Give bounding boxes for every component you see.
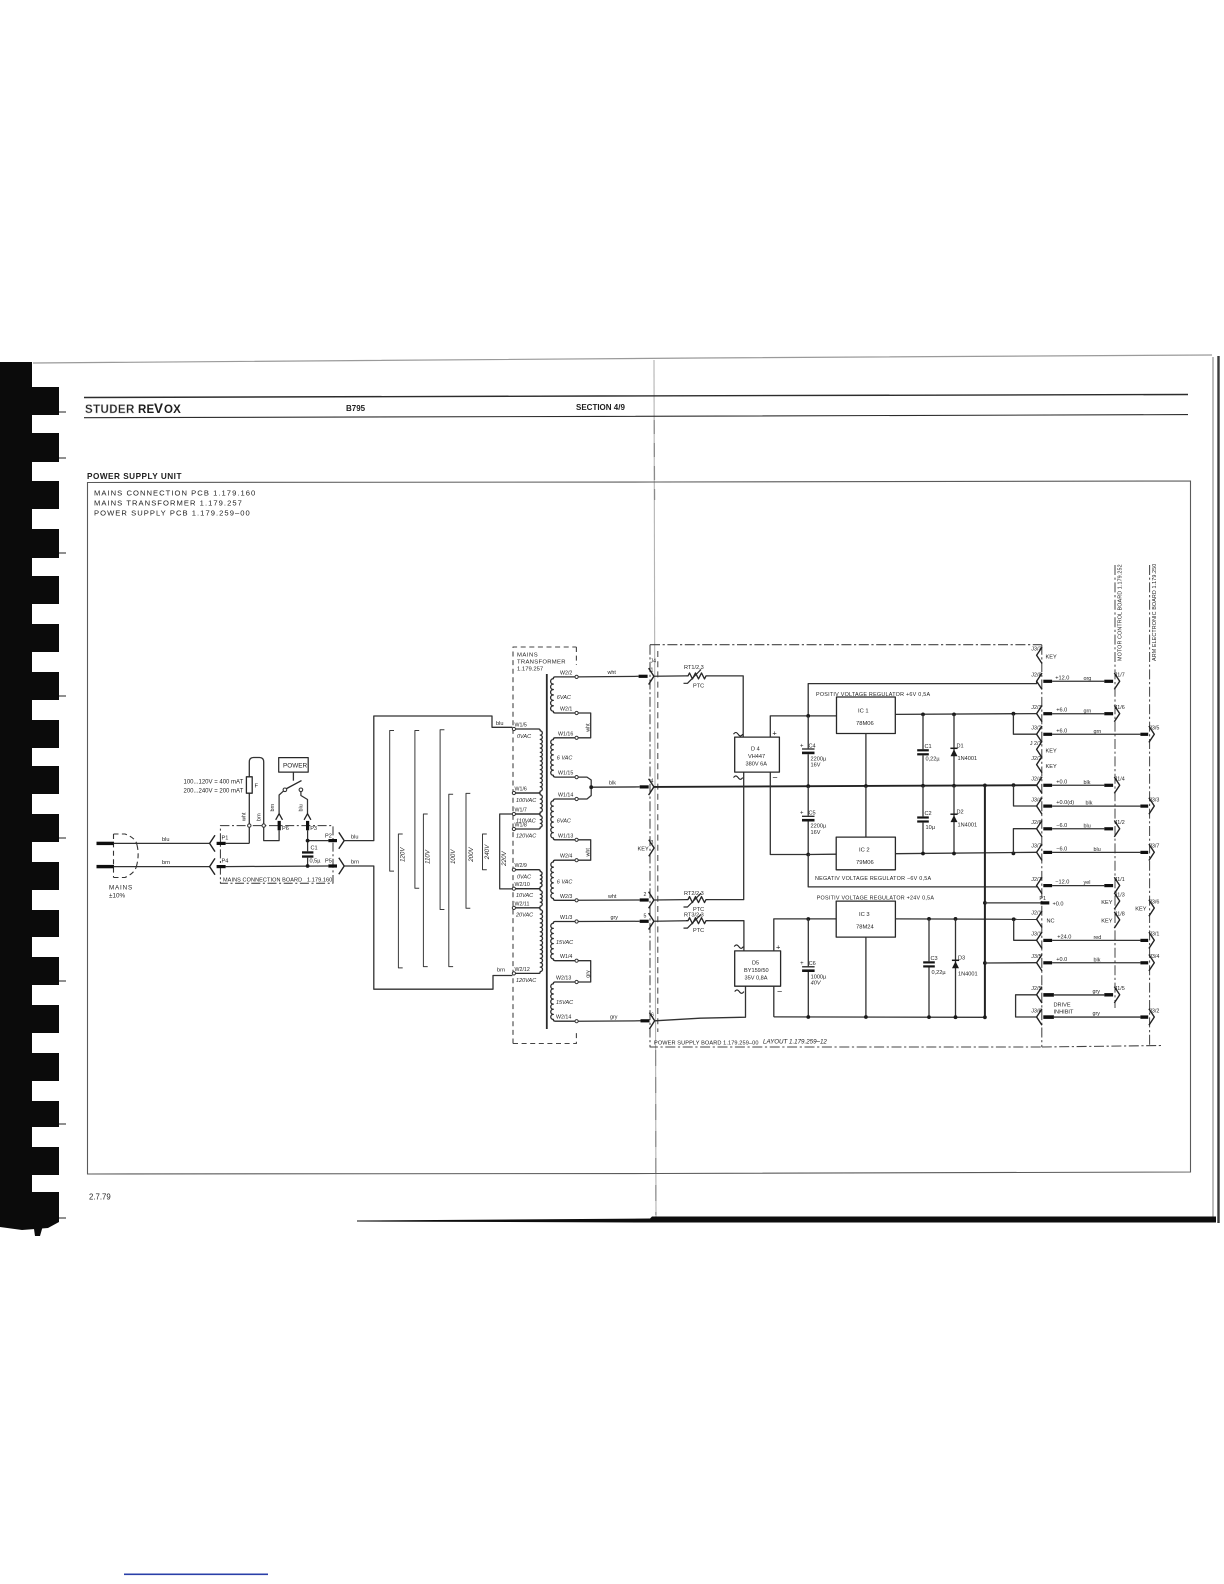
mains plug	[97, 834, 139, 900]
svg-text:KEY: KEY	[1135, 906, 1146, 912]
svg-text:J 2/1: J 2/1	[1030, 741, 1042, 747]
svg-text:+0.0: +0.0	[1056, 957, 1067, 963]
svg-text:gry: gry	[611, 915, 619, 921]
svg-text:brn: brn	[257, 813, 263, 821]
svg-text:200V: 200V	[468, 846, 475, 862]
svg-text:W1/6: W1/6	[515, 787, 527, 793]
svg-text:220V: 220V	[501, 850, 508, 866]
svg-text:grn: grn	[1084, 708, 1092, 714]
svg-text:120VAC: 120VAC	[516, 833, 536, 839]
svg-text:MOTOR CONTROL BOARD 1.179.252: MOTOR CONTROL BOARD 1.179.252	[1118, 564, 1124, 661]
connector J3/6 gry to arm J3/2	[1031, 1008, 1159, 1025]
svg-text:MAINS CONNECTION BOARD: MAINS CONNECTION BOARD	[223, 878, 302, 884]
svg-text:red: red	[1094, 935, 1102, 941]
-6V input rail to IC2	[808, 853, 836, 855]
svg-text:P2: P2	[325, 833, 332, 839]
svg-text:J3/6: J3/6	[1149, 899, 1159, 905]
svg-text:IC 2: IC 2	[859, 848, 870, 854]
link W1/4 to W2/13 gry	[578, 961, 591, 982]
svg-text:+0.0(d): +0.0(d)	[1056, 800, 1074, 806]
svg-text:J2/6: J2/6	[1031, 820, 1041, 826]
bridge rectifier D4 VH447	[734, 729, 780, 783]
svg-text:PTC: PTC	[693, 928, 704, 934]
svg-text:NC: NC	[1047, 919, 1055, 925]
primary winding W2/9-W2/10	[515, 870, 542, 889]
svg-text:J1/5: J1/5	[1115, 986, 1125, 992]
svg-text:P6: P6	[282, 826, 289, 832]
svg-text:1N4001: 1N4001	[958, 756, 978, 762]
node D4+/C4	[806, 714, 810, 718]
svg-text:0,22µ: 0,22µ	[932, 970, 947, 976]
svg-text:W2/2: W2/2	[560, 670, 572, 676]
connector J1/3 KEY	[1101, 892, 1125, 909]
svg-text:KEY: KEY	[638, 846, 649, 852]
svg-text:wht: wht	[607, 670, 617, 676]
svg-text:MAINS: MAINS	[109, 885, 133, 892]
svg-text:2200µ: 2200µ	[811, 756, 827, 762]
svg-text:15VAC: 15VAC	[556, 1000, 573, 1006]
arm electronic board boundary 1.179.250	[1150, 564, 1158, 1045]
svg-text:J3/7: J3/7	[1149, 844, 1159, 850]
selector labels	[400, 844, 509, 867]
svg-text:POWER SUPPLY PCB 1.179.259–00: POWER SUPPLY PCB 1.179.259–00	[94, 509, 251, 518]
pin P1 +0.0	[1039, 896, 1063, 908]
svg-text:120V: 120V	[400, 847, 407, 862]
svg-text:wht: wht	[242, 812, 248, 822]
thermistor RT1/2,3 PTC	[684, 665, 709, 690]
svg-text:0,5µ: 0,5µ	[310, 858, 322, 864]
svg-text:J3/1: J3/1	[1149, 932, 1159, 938]
svg-text:POSITIV VOLTAGE REGULATOR +6V: POSITIV VOLTAGE REGULATOR +6V 0,5A	[816, 692, 930, 698]
capacitor C6 1000u 40V	[800, 917, 827, 1019]
svg-text:C4: C4	[809, 743, 816, 749]
connector J2/5 gry to J1/5 drive inhibit	[1031, 986, 1125, 1016]
branch to J2/6 -6V	[1012, 829, 1037, 856]
svg-text:−: −	[772, 773, 777, 783]
svg-text:10VAC: 10VAC	[516, 893, 533, 899]
connector pin 1 wht	[639, 668, 686, 685]
primary terminal labels	[515, 723, 530, 973]
secondary terminal nodes	[575, 675, 578, 1023]
centre fold line	[654, 360, 656, 1220]
connector J3/3 KEY	[1031, 647, 1057, 664]
svg-text:W2/14: W2/14	[556, 1015, 571, 1021]
primary terminal nodes	[512, 727, 515, 975]
FOOTER	[89, 1193, 111, 1202]
mains connection board outline 1.179.160	[220, 826, 333, 884]
svg-text:MAINS CONNECTION PCB 1.179.160: MAINS CONNECTION PCB 1.179.160	[94, 489, 256, 498]
svg-text:KEY: KEY	[1046, 749, 1057, 755]
wire RT2 to D4 AC2	[709, 772, 744, 899]
voltage selector strap guides	[390, 730, 487, 968]
svg-text:200...240V = 200 mAT: 200...240V = 200 mAT	[184, 789, 244, 795]
connector pin 6 gry	[641, 1013, 655, 1029]
capacitor C5 2200u 16V	[800, 786, 827, 854]
wire IC1 gnd	[865, 734, 867, 787]
wire P3 node to P2	[308, 840, 329, 842]
-6V output rail IC2 to J3/7	[895, 852, 1036, 853]
svg-text:J4: J4	[651, 659, 657, 665]
svg-text:4: 4	[651, 778, 654, 784]
connector J2/1 KEY	[1030, 741, 1057, 758]
svg-text:110VAC: 110VAC	[516, 818, 536, 824]
svg-text:79M06: 79M06	[856, 860, 874, 866]
wire blk center tap W1/15+W1/14 to pin4	[578, 777, 640, 799]
primary winding W2/10-W2/11	[515, 889, 542, 908]
svg-text:0VAC: 0VAC	[517, 734, 531, 740]
link J2/5 to J3/6 drive inhibit	[1016, 995, 1037, 1017]
svg-text:5: 5	[644, 913, 647, 919]
svg-text:J3/3: J3/3	[1031, 647, 1041, 653]
svg-text:STUDER: STUDER	[85, 404, 135, 416]
+24V output rail IC3 to J2/1	[895, 918, 1036, 920]
0V24 rail	[774, 1016, 985, 1018]
node C1/P4P5	[306, 864, 310, 868]
svg-text:78M06: 78M06	[856, 721, 874, 727]
svg-text:D5: D5	[752, 961, 759, 967]
svg-text:brn: brn	[497, 968, 505, 974]
spiral binding black spine	[0, 362, 32, 1222]
svg-text:POSITIV VOLTAGE REGULATOR +24V: POSITIV VOLTAGE REGULATOR +24V 0,5A	[817, 896, 935, 902]
transformer core	[546, 674, 548, 1029]
connector J2/3 +6.0 grn to J1/6	[1031, 705, 1125, 722]
svg-text:6 VAC: 6 VAC	[557, 756, 573, 762]
svg-text:RE: RE	[138, 404, 155, 416]
wire blu P2 to selector to W1/5	[344, 716, 512, 841]
svg-text:100...120V = 400 mAT: 100...120V = 400 mAT	[184, 780, 244, 786]
svg-text:J1/7: J1/7	[1115, 673, 1125, 679]
connector J3/2 +6.0 grn to arm J3/5	[1031, 726, 1159, 743]
svg-text:C3: C3	[931, 956, 938, 962]
wire gry W2/14 to pin6	[578, 1015, 640, 1022]
svg-text:V: V	[154, 401, 163, 416]
svg-text:J1/2: J1/2	[1115, 820, 1125, 826]
connector arm J3/6 KEY	[1135, 899, 1159, 916]
secondary terminal labels	[556, 670, 573, 1020]
capacitor C1 0,22u	[917, 713, 940, 788]
wire brn P5 to selector to W2/12	[344, 860, 512, 990]
svg-text:J1/6: J1/6	[1115, 705, 1125, 711]
svg-text:KEY: KEY	[1046, 764, 1057, 770]
wire P4 to P5	[226, 865, 329, 868]
svg-text:C1: C1	[925, 744, 932, 750]
svg-text:IC 3: IC 3	[859, 912, 870, 918]
small tick marks right of teeth	[59, 412, 66, 1218]
svg-text:J2/2: J2/2	[1031, 756, 1041, 762]
svg-text:1N4001: 1N4001	[958, 972, 978, 978]
svg-text:+24.0: +24.0	[1057, 934, 1071, 940]
transformer T1 dashed enclosure 1.179.257	[513, 647, 576, 1044]
svg-text:blk: blk	[1084, 780, 1091, 786]
svg-text:100VAC: 100VAC	[516, 798, 536, 804]
svg-text:POWER: POWER	[283, 763, 308, 770]
svg-text:10µ: 10µ	[926, 825, 936, 831]
svg-text:J2/8: J2/8	[1031, 673, 1041, 679]
wire IC3 gnd	[865, 937, 867, 1017]
capacitor C2 10u	[917, 786, 936, 856]
svg-text:16V: 16V	[811, 830, 821, 836]
0V rail blk pin4 to J2/4	[654, 785, 1037, 787]
svg-text:blu: blu	[162, 837, 169, 843]
regulator IC1 78M06	[837, 697, 896, 734]
svg-text:W1/3: W1/3	[560, 915, 572, 921]
svg-text:−: −	[777, 987, 782, 997]
svg-text:F: F	[255, 784, 259, 790]
svg-text:J3/4: J3/4	[1149, 954, 1159, 960]
svg-text:J2/3: J2/3	[1031, 705, 1041, 711]
svg-text:W1/15: W1/15	[558, 771, 573, 777]
primary winding W1/6-W1/7 110VAC	[515, 793, 542, 814]
svg-text:J3/2: J3/2	[1031, 726, 1041, 732]
+6V output rail IC1 to J2/3	[895, 713, 1036, 716]
connector P1	[210, 835, 250, 851]
svg-text:PTC: PTC	[693, 683, 704, 689]
svg-text:+: +	[776, 942, 781, 951]
svg-text:100V: 100V	[450, 849, 457, 864]
svg-text:6: 6	[651, 1013, 654, 1019]
svg-text:gry: gry	[1093, 989, 1101, 995]
svg-text:0,22µ: 0,22µ	[926, 756, 941, 762]
node P3/C1	[306, 839, 310, 843]
connector pin 5 gry	[640, 913, 686, 929]
svg-text:blu: blu	[496, 721, 503, 727]
svg-text:1.179.257: 1.179.257	[517, 667, 543, 673]
svg-text:wht: wht	[586, 723, 592, 733]
secondary winding W2/4-W2/3 6VAC	[551, 860, 575, 900]
wire wht W2/2 to pin1	[578, 670, 638, 677]
wire pin6 to D5 AC2	[655, 986, 746, 1021]
connector P2	[325, 832, 344, 848]
svg-text:W1/14: W1/14	[558, 793, 573, 799]
svg-text:brn: brn	[351, 860, 359, 866]
svg-text:15VAC: 15VAC	[556, 940, 573, 946]
svg-text:blk: blk	[1094, 957, 1101, 963]
bottom blue line	[124, 1574, 268, 1576]
diode D2 1N4001	[950, 786, 977, 856]
svg-text:2: 2	[644, 892, 647, 898]
svg-text:C1: C1	[311, 846, 318, 852]
svg-text:NEGATIV VOLTAGE REGULATOR −6V: NEGATIV VOLTAGE REGULATOR −6V 0,5A	[815, 876, 931, 882]
svg-text:blk: blk	[609, 781, 616, 787]
regulator IC3 78M24	[836, 901, 895, 937]
svg-text:W1/16: W1/16	[558, 731, 573, 737]
primary winding W1/5-W1/6 0VAC-100VAC	[515, 729, 542, 793]
svg-text:1.179.160: 1.179.160	[307, 878, 332, 884]
branch J3/1 +24.0 from +24 rail	[1012, 917, 1037, 940]
svg-text:−12.0: −12.0	[1055, 880, 1069, 886]
svg-text:J2/1: J2/1	[1031, 911, 1041, 917]
diode D3 1N4001	[952, 917, 978, 1019]
svg-text:org: org	[1084, 676, 1092, 682]
svg-text:P5: P5	[325, 859, 332, 865]
right page edge lines	[1212, 357, 1214, 1222]
svg-text:INHIBIT: INHIBIT	[1054, 1010, 1074, 1016]
svg-text:+: +	[800, 961, 804, 967]
svg-text:P1: P1	[222, 836, 229, 842]
svg-text:gry: gry	[1093, 1011, 1101, 1017]
svg-text:20VAC: 20VAC	[515, 912, 533, 918]
link W1/13 to W2/4 wht	[578, 840, 591, 860]
POWER switch box	[279, 758, 309, 781]
svg-text:J3/2: J3/2	[1149, 1008, 1159, 1014]
heavy 0V link blk rail to 0V24 rail	[983, 784, 987, 1020]
motor control board boundary 1.179.252	[1115, 564, 1124, 1008]
node wht on board edge	[248, 824, 251, 827]
svg-text:grn: grn	[1094, 729, 1102, 735]
svg-text:P1: P1	[1039, 896, 1046, 902]
svg-text:240V: 240V	[484, 844, 491, 860]
svg-text:J3/6: J3/6	[1031, 1008, 1041, 1014]
switch S1 contacts	[270, 781, 308, 814]
svg-text:C5: C5	[809, 810, 816, 816]
svg-text:gry: gry	[586, 970, 592, 978]
svg-text:110V: 110V	[425, 849, 432, 864]
svg-text:KEY: KEY	[1101, 919, 1112, 925]
secondary winding W1/3-W1/4 15VAC	[551, 922, 575, 961]
svg-text:J3/5: J3/5	[1149, 726, 1159, 732]
connector J2/8 +12.0 org to J1/7	[1031, 673, 1125, 690]
svg-text:D3: D3	[958, 956, 965, 962]
link W2/1 to W1/16 wht	[578, 713, 591, 738]
svg-text:W1/4: W1/4	[560, 954, 572, 960]
svg-text:J1/8: J1/8	[1115, 911, 1125, 917]
svg-text:C6: C6	[809, 961, 816, 967]
svg-text:P3: P3	[310, 826, 317, 832]
svg-text:W2/1: W2/1	[560, 707, 572, 713]
+6V input rail C4 node to IC1	[808, 715, 836, 717]
+12V unregulated rail to J2/8	[808, 681, 1036, 716]
connector J3/4 +0.0(d) blk to arm J3/3	[1031, 797, 1159, 814]
svg-text:W2/11: W2/11	[515, 901, 530, 907]
secondary winding W1/16-W1/15 6VAC	[551, 738, 575, 777]
svg-text:MAINS: MAINS	[517, 653, 538, 659]
svg-text:+6.0: +6.0	[1056, 708, 1067, 714]
svg-text:J1/4: J1/4	[1115, 777, 1125, 783]
svg-text:J3/3: J3/3	[1149, 797, 1159, 803]
svg-text:−6.0: −6.0	[1056, 846, 1067, 852]
svg-text:B795: B795	[346, 404, 366, 413]
wire D5 plus to +24 rail	[774, 919, 836, 951]
svg-text:gry: gry	[610, 1015, 618, 1021]
svg-text:D2: D2	[957, 809, 964, 815]
svg-text:OX: OX	[164, 404, 181, 416]
svg-text:brn: brn	[270, 804, 276, 812]
secondary winding W1/14-W1/13 6VAC	[551, 799, 575, 840]
svg-text:D1: D1	[957, 744, 964, 750]
svg-text:3: 3	[651, 840, 654, 846]
wire D4 minus to C5 node	[770, 772, 808, 854]
wire D5 minus to 0V24 rail	[773, 986, 775, 1017]
connector P3	[304, 814, 317, 841]
svg-text:1: 1	[651, 668, 654, 674]
svg-text:J2/7: J2/7	[1031, 877, 1041, 883]
connector J3/7 -6.0 blu to arm J3/7	[1031, 844, 1159, 861]
node C5/D4minus	[806, 853, 810, 857]
svg-text:C2: C2	[925, 811, 932, 817]
page top edge	[33, 355, 1212, 363]
node IC3 gnd/0V24	[864, 1015, 868, 1019]
svg-text:40V: 40V	[811, 981, 822, 987]
svg-text:POWER SUPPLY BOARD 1.179.259–: POWER SUPPLY BOARD 1.179.259–00	[654, 1041, 759, 1047]
svg-text:DRIVE: DRIVE	[1054, 1003, 1071, 1009]
svg-text:J3/5: J3/5	[1031, 954, 1041, 960]
svg-text:16V: 16V	[811, 763, 821, 769]
svg-text:6 VAC: 6 VAC	[557, 880, 573, 886]
branch P1 +0.0	[983, 901, 1041, 905]
SCAN-FURNITURE	[0, 355, 1219, 1575]
connector J2/7 -12.0 yel to J1/1	[1031, 877, 1125, 894]
svg-text:−6.0: −6.0	[1056, 823, 1067, 829]
svg-text:blk: blk	[1086, 801, 1093, 807]
capacitor C3 0,22u	[923, 917, 946, 1019]
svg-text:+: +	[772, 729, 777, 738]
svg-text:2200µ: 2200µ	[811, 824, 827, 830]
svg-text:+: +	[800, 743, 804, 749]
capacitor C1 0,5u	[302, 843, 321, 867]
wire IC2 gnd	[865, 786, 867, 837]
wire brn plug to P4	[114, 860, 210, 867]
svg-text:blu: blu	[1084, 823, 1091, 829]
connector P6	[276, 814, 289, 832]
svg-text:brn: brn	[162, 860, 170, 866]
svg-text:POWER SUPPLY UNIT: POWER SUPPLY UNIT	[87, 472, 182, 481]
wire RT1 to D4 AC1	[709, 676, 744, 737]
svg-text:MAINS TRANSFORMER 1.179.257: MAINS TRANSFORMER 1.179.257	[94, 499, 243, 508]
strap 220V W1/7 to W2/10	[500, 814, 513, 889]
svg-text:J3/1: J3/1	[1031, 932, 1041, 938]
svg-text:+: +	[800, 810, 804, 816]
svg-text:J1/3: J1/3	[1115, 892, 1125, 898]
svg-text:LAYOUT 1.179.259–12: LAYOUT 1.179.259–12	[763, 1039, 827, 1046]
svg-text:+6.0: +6.0	[1056, 728, 1067, 734]
svg-text:TRANSFORMER: TRANSFORMER	[517, 660, 566, 666]
bridge rectifier D5 BY159/50	[734, 942, 782, 996]
svg-text:+0.0: +0.0	[1056, 779, 1067, 785]
svg-text:J2/4: J2/4	[1031, 777, 1041, 783]
secondary winding W2/2-W2/1 6VAC	[551, 677, 576, 713]
svg-text:VH447: VH447	[748, 754, 765, 760]
-12V rail to J2/7	[808, 855, 1036, 887]
svg-text:blu: blu	[1094, 847, 1101, 853]
svg-text:W2/12: W2/12	[515, 967, 530, 973]
connector J3/1 +24.0 red to arm J3/1	[1031, 932, 1159, 949]
branch J3/5 +0.0	[983, 961, 1037, 965]
svg-text:78M24: 78M24	[856, 925, 875, 931]
svg-text:D 4: D 4	[751, 747, 760, 753]
svg-text:W1/5: W1/5	[515, 723, 527, 729]
node C4/0V rail	[806, 784, 810, 788]
svg-text:W2/9: W2/9	[515, 863, 527, 869]
primary winding W2/11-W2/12	[515, 908, 542, 974]
svg-text:6VAC: 6VAC	[557, 819, 571, 825]
HEADER	[84, 395, 1188, 418]
capacitor C4 2200u 16V	[800, 716, 827, 786]
svg-text:J3/7: J3/7	[1031, 844, 1041, 850]
svg-text:IC 1: IC 1	[858, 709, 869, 715]
svg-text:blu: blu	[298, 804, 304, 811]
svg-text:W2/4: W2/4	[560, 854, 572, 860]
svg-text:380V 6A: 380V 6A	[746, 762, 768, 768]
connector pin 3 KEY	[638, 840, 655, 856]
connector J1/8 KEY	[1101, 911, 1125, 928]
thermistor RT2/2,3 PTC	[684, 891, 709, 913]
svg-text:±10%: ±10%	[109, 893, 125, 900]
svg-text:blu: blu	[351, 834, 358, 840]
svg-text:BY159/50: BY159/50	[744, 968, 769, 974]
binding teeth	[0, 387, 59, 1236]
TITLEBLOCK	[87, 472, 1191, 1174]
node brn on board edge	[262, 824, 265, 827]
